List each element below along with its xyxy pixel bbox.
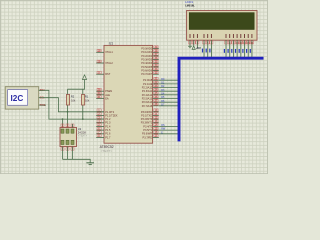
U2 bottom pin numbers xyxy=(61,148,74,152)
svg-text:R1: R1 xyxy=(85,95,89,99)
svg-text:P3.3/INT1: P3.3/INT1 xyxy=(141,121,153,125)
svg-text:EA: EA xyxy=(105,97,109,101)
+5V power arrow at LCD VDD xyxy=(192,46,201,50)
U1 left pin names xyxy=(105,50,118,139)
U1 value label AT89C52 xyxy=(100,145,114,149)
U1 right pin numbers xyxy=(154,46,158,138)
U1 left pin numbers xyxy=(97,49,101,137)
svg-text:RS: RS xyxy=(161,124,165,127)
svg-text:U2: U2 xyxy=(78,127,82,131)
data bus (thick blue) xyxy=(179,58,264,141)
EEPROM U2 24C08 body xyxy=(60,128,77,147)
I2C debugger box xyxy=(5,87,39,109)
LCD1 reference label xyxy=(185,0,193,4)
svg-text:P2.6/A14: P2.6/A14 xyxy=(142,100,153,104)
LCD screen xyxy=(189,13,254,30)
svg-text:P1.6: P1.6 xyxy=(105,132,111,136)
U1 right pin names xyxy=(141,47,153,140)
svg-text:P0.7/AD7: P0.7/AD7 xyxy=(141,72,152,76)
svg-text:+5V: +5V xyxy=(196,46,201,50)
LCD pin numbers 1-14 xyxy=(188,41,253,45)
wire SDA: I2C pin to P1.2, staircase xyxy=(39,90,104,119)
svg-text:P3.7/RD: P3.7/RD xyxy=(143,135,153,139)
svg-text:LM016L: LM016L xyxy=(185,4,195,8)
svg-text:P0.5/AD5: P0.5/AD5 xyxy=(141,65,152,69)
I2C debugger pin labels SDA SCL TRIG xyxy=(40,89,46,107)
svg-text:P0.3/AD3: P0.3/AD3 xyxy=(141,58,152,62)
resistor R2 10k xyxy=(66,95,76,106)
LCD pin stubs VSS VDD VEE xyxy=(190,40,197,48)
svg-text:P2.7/A15: P2.7/A15 xyxy=(142,104,153,108)
svg-text:P0.2/AD2: P0.2/AD2 xyxy=(141,54,152,58)
resistor R1 10k xyxy=(82,95,90,106)
LCD pin names (vertical marks) xyxy=(190,34,253,38)
svg-text:RST: RST xyxy=(105,72,111,76)
svg-text:P1.4: P1.4 xyxy=(105,124,111,128)
ground symbol at LCD VSS xyxy=(188,46,192,47)
LCD LM016L body xyxy=(187,11,257,41)
U1 text placeholder xyxy=(101,149,112,153)
svg-text:P1.1/T2EX: P1.1/T2EX xyxy=(105,113,118,117)
svg-text:<TEXT>: <TEXT> xyxy=(78,135,88,138)
I2C TRIG pin stub xyxy=(39,104,46,106)
wires LCD RS RW E to bus with labels xyxy=(202,40,212,57)
U1 reference label xyxy=(109,41,113,45)
wire R1 leg down to SDA node xyxy=(82,89,84,119)
wire U2 SDA pin leg xyxy=(62,119,64,127)
svg-text:P2.3/A11: P2.3/A11 xyxy=(142,89,153,93)
svg-text:XTAL2: XTAL2 xyxy=(105,61,113,65)
svg-text:<TEXT>: <TEXT> xyxy=(101,149,112,153)
svg-text:P1.5: P1.5 xyxy=(105,128,111,132)
svg-text:P2.4/A12: P2.4/A12 xyxy=(142,93,153,97)
svg-text:P1.2: P1.2 xyxy=(105,117,111,121)
svg-text:P0.4/AD4: P0.4/AD4 xyxy=(141,61,152,65)
svg-text:P2.2/A10: P2.2/A10 xyxy=(142,86,153,90)
svg-text:ALE: ALE xyxy=(105,93,110,97)
svg-text:P3.1/TXD: P3.1/TXD xyxy=(141,113,152,117)
wire SCL: I2C pin to P1.0 xyxy=(39,98,104,112)
wires U2 bottom pins to ground rail xyxy=(63,147,91,163)
wires LCD D0-D7 to bus with labels xyxy=(224,40,252,57)
svg-text:PSEN: PSEN xyxy=(105,89,112,93)
LCD value label LM016L xyxy=(185,4,195,8)
wires P2.0-P2.7 to bus with net labels D0-D7 xyxy=(159,78,178,107)
power arrow VCC xyxy=(82,75,86,80)
U2 top pin numbers xyxy=(61,124,74,128)
svg-text:10k: 10k xyxy=(85,99,90,103)
svg-text:P0.1/AD1: P0.1/AD1 xyxy=(141,50,152,54)
svg-text:10k: 10k xyxy=(71,99,76,103)
svg-text:P1.7: P1.7 xyxy=(105,135,111,139)
svg-text:R2: R2 xyxy=(71,95,75,99)
U2 third top pin stub xyxy=(72,124,74,128)
wire R2 leg down to SCL node and U2 xyxy=(67,89,69,127)
svg-text:P3.2/INT0: P3.2/INT0 xyxy=(141,117,153,121)
svg-text:XTAL1: XTAL1 xyxy=(105,50,113,54)
wire VCC rail above resistors xyxy=(68,80,85,90)
junction dots xyxy=(62,111,84,120)
svg-text:P3.6/WR: P3.6/WR xyxy=(142,132,152,136)
svg-text:I2C: I2C xyxy=(11,94,24,103)
svg-text:P2.0/A8: P2.0/A8 xyxy=(143,78,153,82)
svg-text:U1: U1 xyxy=(109,41,113,45)
svg-text:P3.4/T0: P3.4/T0 xyxy=(143,124,153,128)
svg-text:P2.1/A9: P2.1/A9 xyxy=(143,82,153,86)
svg-text:P2.5/A13: P2.5/A13 xyxy=(142,97,153,101)
svg-text:P3.0/RXD: P3.0/RXD xyxy=(141,110,152,114)
svg-text:P1.3: P1.3 xyxy=(105,121,111,125)
svg-text:P0.6/AD6: P0.6/AD6 xyxy=(141,69,152,73)
svg-text:P3.5/T1: P3.5/T1 xyxy=(143,128,153,132)
schematic sheet background xyxy=(0,0,268,174)
svg-text:P0.0/AD0: P0.0/AD0 xyxy=(141,47,152,51)
ground symbol xyxy=(86,163,94,165)
wires P3.4-P3.6 to bus with net labels RS RW E xyxy=(159,124,178,134)
svg-text:P1.0/T2: P1.0/T2 xyxy=(105,110,115,114)
microcontroller U1 (AT89C52) xyxy=(96,45,159,143)
U2 reference and value labels xyxy=(78,127,88,138)
